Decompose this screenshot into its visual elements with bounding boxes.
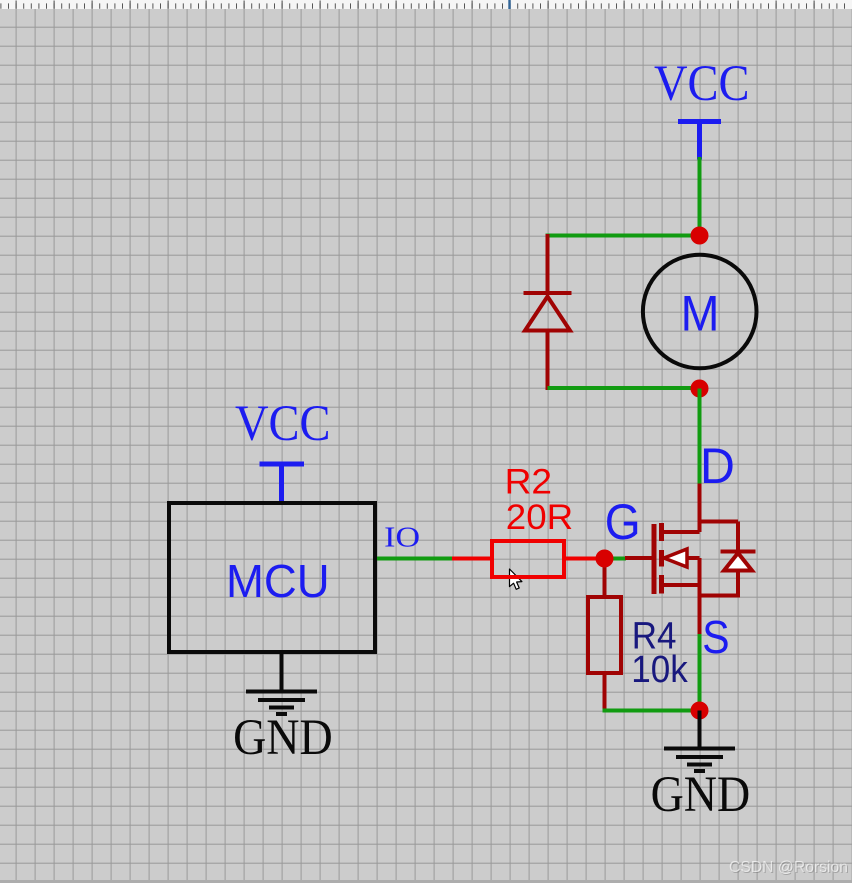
svg-text:G: G: [605, 494, 641, 550]
transistor Q1 N-MOSFET: [654, 484, 756, 637]
ground label GND (right): [651, 767, 751, 823]
power symbol VCC (MCU): [260, 464, 305, 502]
power rail label VCC (MCU): [235, 396, 331, 452]
svg-text:CSDN @Rorsion: CSDN @Rorsion: [729, 859, 848, 876]
power symbol VCC (top right): [678, 122, 721, 160]
label R4 10k: [631, 615, 688, 691]
ground symbol (right): [664, 711, 735, 772]
svg-text:VCC: VCC: [235, 396, 331, 452]
wire node A to diode cathode branch: [546, 234, 700, 238]
svg-text:20R: 20R: [506, 498, 573, 537]
pin label D: [700, 438, 735, 494]
wire MCU IO to R2: [377, 557, 453, 561]
MCU label: [226, 555, 330, 607]
node G junction dot: [596, 550, 614, 568]
svg-text:GND: GND: [651, 767, 751, 823]
svg-text:VCC: VCC: [654, 56, 750, 112]
wire node B to drain: [698, 389, 702, 485]
pin label G: [605, 494, 641, 550]
watermark CSDN @Rorsion: [729, 859, 849, 877]
svg-text:M: M: [681, 286, 720, 342]
mouse cursor: [510, 569, 522, 589]
node B junction dot: [691, 380, 709, 398]
wire node G stub: [605, 557, 627, 561]
resistor R4: [588, 557, 621, 709]
node C junction dot: [691, 702, 709, 720]
MCU block U1: [169, 503, 375, 652]
power rail label VCC (top right): [654, 56, 750, 112]
wire R4 to node C: [603, 709, 700, 713]
diode D1 (flyback): [524, 234, 572, 390]
ruler cursor marker (blue tick): [508, 0, 510, 9]
ruler ticks: [1, 1, 845, 9]
svg-text:D: D: [700, 438, 735, 494]
wire source to node C: [698, 634, 702, 711]
label R2 20R: [505, 463, 574, 537]
svg-text:10k: 10k: [631, 649, 688, 691]
svg-text:S: S: [702, 611, 729, 663]
svg-text:GND: GND: [233, 710, 333, 766]
motor M1 circle: [643, 255, 757, 369]
ground symbol (MCU): [246, 654, 317, 714]
gate lead wire: [625, 556, 656, 560]
pin label S: [702, 611, 729, 663]
pin label IO: [384, 521, 420, 553]
svg-text:R2: R2: [505, 463, 552, 502]
wire diode anode to node B: [548, 386, 700, 390]
motor label M: [681, 286, 720, 342]
ground label GND (MCU): [233, 710, 333, 766]
wire VCC to node A: [698, 157, 702, 236]
node A junction dot: [691, 227, 709, 245]
svg-text:IO: IO: [384, 521, 420, 553]
svg-text:MCU: MCU: [226, 555, 330, 607]
resistor R2: [452, 541, 597, 577]
